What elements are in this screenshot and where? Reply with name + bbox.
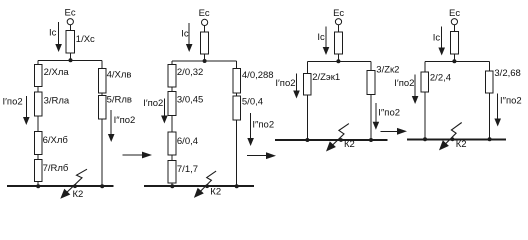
svg-text:4/Хлв: 4/Хлв [107, 69, 132, 80]
svg-text:Ec: Ec [449, 8, 460, 19]
wire: rail to resistor 2 (circuit 3) [306, 61, 308, 73]
svg-text:2/0,32: 2/0,32 [177, 67, 203, 78]
resistor 3/0,45 [168, 91, 203, 115]
wire: resistor 4 to resistor 5 (circuit 2) [236, 93, 238, 96]
wire: Ec terminal to source resistor (circuit 4) [453, 25, 455, 32]
wire: top rail circuit 4 [425, 60, 490, 62]
resistor 5/Rлв [98, 94, 132, 119]
wire: resistor 4 to resistor 5 [101, 93, 103, 95]
resistor 5/0,4 [233, 96, 263, 120]
wire: rail to resistor 3 (circuit 3) [370, 61, 372, 70]
svg-text:6/Хлб: 6/Хлб [43, 135, 69, 146]
transformation arrow 3 to 4 [380, 128, 407, 135]
wire: resistor 5 to bus (circuit 2) [236, 120, 238, 186]
wire: rail to resistor 4 (circuit 2) [236, 61, 238, 69]
svg-text:I′по2: I′по2 [275, 78, 295, 89]
wire: source resistor to top node (circuit 3) [337, 54, 339, 61]
svg-text:I′по2: I′по2 [143, 98, 163, 109]
resistor: source impedance (circuit 4, unlabeled) [450, 32, 458, 55]
current arrow Ic (circuit 1) [49, 22, 62, 52]
fault lightning arrow K2 (circuit 1) [60, 169, 87, 200]
resistor 1/Xc [66, 31, 95, 53]
resistor 2/Zэк1 [304, 72, 341, 95]
source terminal Ec (circuit 3) [333, 8, 344, 25]
wire: resistor 2 to resistor 3 (circuit 2) [171, 87, 173, 91]
fault lightning arrow K2 (circuit 2) [194, 171, 221, 198]
resistor 3/Rла [34, 92, 70, 116]
wire: resistor 3 to bus (circuit 3) [370, 94, 372, 140]
source terminal Ec (circuit 1) [65, 8, 76, 25]
current arrow I'по2 (circuit 4) [394, 74, 418, 104]
svg-text:7/Rлб: 7/Rлб [43, 163, 69, 174]
wire: top rail circuit 2 [172, 60, 237, 62]
wire: resistor 6 to resistor 7 (circuit 2) [171, 155, 173, 160]
svg-text:I″по2: I″по2 [378, 107, 400, 118]
node: bus right junction circuit 2 [235, 184, 239, 188]
wire: source resistor to top node (circuit 2) [204, 54, 206, 61]
node: top junction circuit 3 [336, 59, 340, 63]
resistor 7/1,7 [168, 160, 198, 183]
resistor 2/2,4 [421, 72, 451, 92]
node: bus left junction circuit 3 [305, 138, 309, 142]
svg-text:Ec: Ec [333, 8, 344, 19]
wire: resistor 3 to resistor 6 [37, 116, 39, 132]
node: bus left junction circuit 2 [170, 184, 174, 188]
current arrow Ic (circuit 3) [317, 26, 329, 55]
source terminal Ec (circuit 2) [199, 8, 210, 26]
wire: resistor 1 to top node [69, 53, 71, 60]
current arrow I'по2 (circuit 3) [275, 73, 299, 98]
wire: resistor 5 to bus [101, 119, 103, 186]
fault lightning arrow K2 (circuit 3) [326, 124, 355, 152]
resistor: source impedance (circuit 2, unlabeled) [201, 32, 209, 54]
wire: rail to resistor 2 (circuit 4) [424, 61, 426, 72]
svg-text:5/0,4: 5/0,4 [242, 96, 263, 107]
wire: resistor 2 to bus (circuit 3) [306, 95, 308, 140]
resistor 2/0,32 [168, 65, 203, 87]
wire: resistor 6 to resistor 7 [37, 155, 39, 160]
svg-text:Ic: Ic [317, 32, 325, 43]
node: top junction circuit 2 [203, 59, 207, 63]
node: bus right junction circuit 3 [369, 138, 373, 142]
svg-text:К2: К2 [73, 189, 84, 200]
resistor 2/Хла [34, 64, 69, 86]
node: top junction circuit 1 [69, 58, 73, 62]
resistor 6/0,4 [168, 132, 198, 155]
svg-text:7/1,7: 7/1,7 [177, 164, 198, 175]
svg-text:2/Zэк1: 2/Zэк1 [312, 72, 340, 83]
svg-text:I″по2: I″по2 [252, 119, 274, 130]
svg-text:К2: К2 [210, 187, 221, 198]
wire: Ec terminal to resistor 1 [69, 25, 71, 31]
wire: resistor 3 to bus (circuit 4) [489, 93, 491, 140]
fault lightning arrow K2 (circuit 4) [439, 123, 467, 151]
wire: rail to resistor 4 [101, 60, 103, 68]
node: bus left junction circuit 1 [36, 184, 40, 188]
current arrow I"по2 (circuit 1) [108, 110, 135, 142]
wire: bottom bus circuit 3 [275, 139, 387, 141]
transformation arrow 2 to 3 [247, 152, 276, 159]
node: bus left junction circuit 4 [423, 137, 427, 141]
svg-text:2/Хла: 2/Хла [44, 67, 70, 78]
current arrow I"по2 (circuit 2) [247, 113, 274, 146]
svg-text:4/0,288: 4/0,288 [242, 70, 274, 81]
svg-text:3/0,45: 3/0,45 [177, 94, 203, 105]
wire: top rail circuit 3 [307, 60, 371, 62]
svg-text:К2: К2 [344, 139, 355, 150]
resistor 3/Zк2 [367, 64, 399, 94]
node: bus right junction circuit 1 [100, 184, 104, 188]
wire: resistor 2 to bus (circuit 4) [424, 92, 426, 139]
wire: bottom bus circuit 4 [407, 138, 506, 140]
current arrow Ic (circuit 2) [181, 23, 192, 52]
resistor 6/Хлб [34, 132, 68, 155]
current arrow I'по2 (circuit 2) [143, 98, 168, 123]
svg-text:I″по2: I″по2 [114, 115, 136, 126]
svg-text:3/2,68: 3/2,68 [494, 68, 520, 79]
node: top junction circuit 4 [452, 59, 456, 63]
wire: rail to resistor 2 [37, 60, 39, 64]
wire: bottom bus circuit 1 [7, 185, 114, 187]
transformation arrow 1 to 2 [122, 152, 152, 159]
wire: rail to resistor 2 (circuit 2) [171, 61, 173, 65]
wire: resistor 2 to resistor 3 [37, 87, 39, 93]
resistor 4/0,288 [233, 69, 274, 94]
svg-text:К2: К2 [456, 139, 467, 150]
svg-text:1/Xc: 1/Xc [76, 34, 95, 45]
svg-text:I′по2: I′по2 [3, 97, 23, 108]
wire: rail to resistor 3 (circuit 4) [489, 61, 491, 71]
svg-text:I″по2: I″по2 [500, 96, 522, 107]
wire: source resistor to top node (circuit 4) [453, 54, 455, 61]
wire: bottom bus circuit 2 [144, 185, 254, 187]
svg-text:I′по2: I′по2 [394, 78, 414, 89]
wire: Ec terminal to source resistor (circuit 2) [204, 26, 206, 33]
current arrow I"по2 (circuit 3) [373, 103, 400, 130]
resistor: source impedance (circuit 3, unlabeled) [334, 32, 342, 54]
svg-text:Ec: Ec [199, 8, 210, 19]
wire: resistor 3 to resistor 6 (circuit 2) [171, 116, 173, 133]
svg-text:Ic: Ic [49, 28, 57, 39]
wire: top rail circuit 1 [38, 59, 102, 61]
current arrow I'по2 (circuit 1) [3, 96, 30, 125]
svg-text:3/Zк2: 3/Zк2 [376, 64, 399, 75]
wire: resistor 7 to bus [37, 182, 39, 187]
node: bus right junction circuit 4 [488, 137, 492, 141]
svg-text:Ec: Ec [65, 8, 76, 19]
svg-text:3/Rла: 3/Rла [44, 96, 70, 107]
wire: resistor 7 to bus (circuit 2) [171, 183, 173, 186]
svg-text:Ic: Ic [433, 33, 441, 44]
resistor 4/Хлв [98, 69, 131, 94]
svg-text:6/0,4: 6/0,4 [177, 136, 198, 147]
resistor 7/Rлб [34, 159, 69, 181]
svg-text:5/Rлв: 5/Rлв [107, 94, 132, 105]
wire: Ec terminal to source resistor (circuit 3) [337, 25, 339, 32]
current arrow I"по2 (circuit 4) [494, 93, 521, 126]
source terminal Ec (circuit 4) [449, 8, 460, 25]
svg-text:2/2,4: 2/2,4 [430, 72, 451, 83]
resistor 3/2,68 [485, 68, 520, 93]
current arrow Ic (circuit 4) [433, 26, 445, 55]
svg-text:Ic: Ic [181, 28, 189, 39]
